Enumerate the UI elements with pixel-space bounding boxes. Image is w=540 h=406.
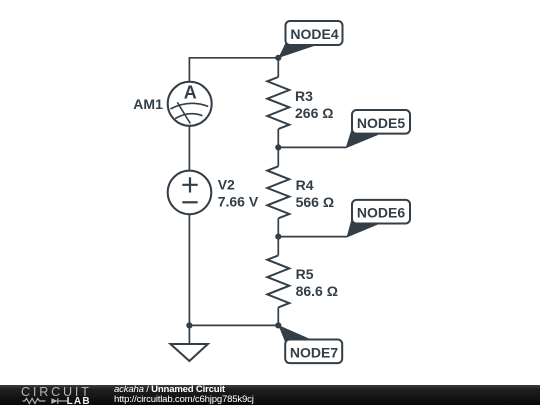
resistor R3 (267, 77, 289, 129)
junction NODE6 (275, 234, 281, 240)
ammeter AM1 (168, 82, 212, 126)
wire ground stub (188, 325, 190, 344)
ground (170, 344, 208, 361)
wire bottom horizontal from ground junction to NODE7 junction (189, 324, 278, 326)
label AM1 (133, 96, 163, 112)
wire R5 bottom to NODE7 junction (277, 307, 279, 325)
node NODE4 callout (278, 21, 342, 58)
wire from ammeter top up and right to NODE4 junction (189, 58, 278, 82)
svg-text:NODE6: NODE6 (357, 205, 405, 221)
svg-text:V2: V2 (218, 177, 235, 193)
junction NODE5 (275, 144, 281, 150)
svg-text:86.6 Ω: 86.6 Ω (296, 283, 338, 299)
wire ammeter bottom to V2 top (188, 126, 190, 170)
svg-text:AM1: AM1 (133, 96, 163, 112)
wire R4 bottom through NODE6 junction to R5 top (277, 218, 279, 255)
junction ground (186, 322, 192, 328)
node NODE5 callout (346, 110, 411, 148)
wire NODE4 junction down to R3 (277, 58, 279, 77)
resistor R5 (267, 255, 289, 307)
label R3 266 ohm (295, 88, 333, 121)
label V2 7.66 V (218, 177, 259, 210)
node NODE6 callout (347, 200, 411, 238)
label R4 566 ohm (296, 177, 334, 210)
label R5 86.6 ohm (296, 266, 338, 299)
svg-text:R3: R3 (295, 88, 313, 104)
wire R3 bottom through NODE5 junction to R4 top (277, 129, 279, 166)
svg-text:566 Ω: 566 Ω (296, 194, 334, 210)
voltage source V2 (168, 171, 212, 215)
wire V2 bottom down to bottom-left junction (188, 215, 190, 326)
svg-text:R5: R5 (296, 266, 314, 282)
resistor R4 (267, 166, 289, 218)
junction NODE4 (275, 55, 281, 61)
svg-text:NODE5: NODE5 (357, 115, 405, 131)
svg-text:R4: R4 (296, 177, 314, 193)
svg-text:NODE4: NODE4 (290, 26, 338, 42)
node NODE7 callout (278, 325, 342, 363)
svg-text:A: A (184, 83, 197, 103)
svg-text:266 Ω: 266 Ω (295, 105, 333, 121)
svg-text:7.66 V: 7.66 V (218, 194, 259, 210)
svg-text:LAB: LAB (67, 396, 91, 406)
wire NODE6 branch (278, 236, 347, 238)
svg-text:NODE7: NODE7 (290, 345, 338, 361)
junction NODE7 (275, 322, 281, 328)
wire NODE5 branch (278, 146, 346, 148)
